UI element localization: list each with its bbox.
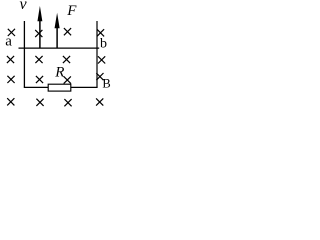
field cross row1 col4: [97, 29, 104, 36]
arrow F shaft: [56, 26, 58, 48]
field cross row1 col2: [35, 30, 42, 37]
resistor R1 box: [48, 84, 71, 91]
field cross row2 col3: [63, 56, 70, 63]
svg-text:B: B: [102, 76, 110, 90]
field cross row3 col3: [64, 76, 71, 83]
rod ab (conductor sliding on rails): [19, 47, 100, 49]
field cross row3 col4 (next to B): [96, 73, 103, 80]
arrow v head: [37, 6, 42, 21]
field cross row2 col1: [7, 56, 14, 63]
wire bottom right segment: [71, 86, 98, 88]
svg-text:R: R: [54, 64, 64, 80]
svg-text:v: v: [20, 0, 28, 13]
wire bottom left segment: [24, 86, 49, 88]
field cross row1 col3: [64, 28, 71, 35]
wire left rail: [23, 21, 25, 87]
svg-text:b: b: [100, 37, 107, 52]
field cross row3 col1: [7, 76, 14, 83]
svg-text:F: F: [66, 3, 77, 19]
field cross row1 col1: [8, 29, 15, 36]
field cross row4 col4: [96, 98, 103, 105]
field cross row3 col2: [36, 76, 43, 83]
field cross row4 col1: [7, 98, 14, 105]
wire right rail: [96, 21, 98, 87]
arrow F head: [55, 13, 60, 28]
field cross row2 col2: [35, 56, 42, 63]
field cross row2 col4: [98, 56, 105, 63]
arrow v shaft: [39, 20, 41, 49]
field cross row4 col2: [36, 99, 43, 106]
field cross row4 col3: [64, 99, 71, 106]
